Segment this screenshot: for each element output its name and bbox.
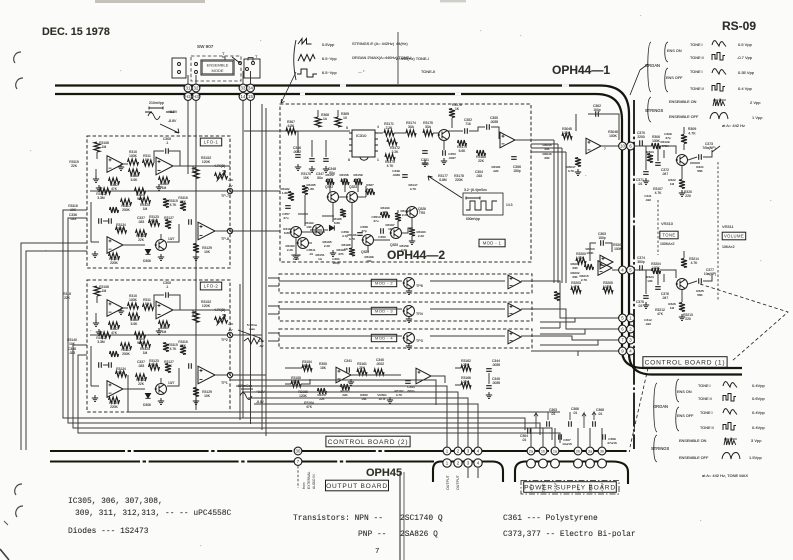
svg-text:220K: 220K	[110, 405, 119, 409]
legend wave square	[297, 69, 317, 77]
wire (LFO-1)	[169, 151, 180, 166]
svg-text:200K: 200K	[122, 352, 131, 356]
wire to test point (LFO-2)	[90, 334, 228, 336]
bottom bus lower through output group	[441, 460, 492, 462]
connector pin 4	[627, 347, 635, 355]
svg-text:500mVpp: 500mVpp	[466, 217, 480, 221]
svg-text:0.4Vpp: 0.4Vpp	[752, 425, 765, 430]
wire (LFO-2)	[123, 388, 145, 390]
binder mark	[15, 484, 22, 495]
ground (LFO-1)	[193, 254, 199, 260]
dashed pointer	[700, 284, 788, 361]
wire	[635, 269, 653, 271]
svg-text:22K: 22K	[71, 164, 78, 168]
wire stub	[357, 183, 359, 192]
ground (LFO-1)	[156, 184, 162, 190]
svg-text:120K: 120K	[202, 160, 211, 164]
wire (LFO-2)	[96, 296, 98, 303]
svg-text:TONE II: TONE II	[690, 87, 704, 91]
svg-text:CONTROL BOARD (1): CONTROL BOARD (1)	[645, 359, 726, 366]
svg-text:+6V: +6V	[259, 339, 264, 343]
svg-text:STRINGS: STRINGS	[645, 108, 663, 113]
svg-text:1M: 1M	[145, 302, 150, 306]
capacitor C337 (LFO-1)	[109, 218, 112, 224]
svg-text:ENSEMBLE: ENSEMBLE	[207, 63, 229, 68]
svg-text:TP3: TP3	[416, 339, 423, 343]
svg-text:C360: C360	[378, 235, 386, 239]
svg-text:AUDIO IN: AUDIO IN	[312, 474, 316, 489]
svg-text:100K: 100K	[609, 134, 618, 138]
capacitor C352	[465, 128, 468, 134]
CONTROL BOARD (2) box	[326, 436, 410, 447]
resistor R3193	[409, 228, 415, 236]
svg-text:120K: 120K	[299, 394, 308, 398]
wire switch to pin 32	[195, 75, 197, 84]
svg-text:H2: H2	[185, 94, 191, 99]
resistor R3121 (LFO-1)	[109, 253, 120, 259]
wire (LFO-1)	[167, 224, 179, 242]
bus dash gaps	[300, 86, 569, 95]
wire vertical	[561, 148, 563, 283]
wire	[351, 374, 401, 376]
wire stub MOD - 2	[268, 285, 279, 287]
trimmer 4.7K(B) (LFO-1)	[215, 173, 228, 179]
resistor R3204b	[652, 268, 661, 274]
svg-text:350p: 350p	[637, 260, 645, 264]
resistor R3213	[679, 303, 685, 312]
ground	[348, 379, 354, 385]
svg-text:.022: .022	[645, 198, 651, 202]
svg-text:D306: D306	[143, 403, 151, 407]
ground	[441, 158, 447, 164]
op-amp IC302 (LFO-2)	[156, 301, 173, 319]
wire stub	[322, 215, 334, 217]
svg-text:4.7K: 4.7K	[327, 177, 334, 181]
wire power pin	[542, 428, 544, 447]
MOD - 3 label box	[371, 307, 396, 314]
resistor R3173	[385, 154, 395, 160]
svg-text:TP-7: TP-7	[221, 194, 229, 198]
test point TP-8 (LFO-1)	[227, 228, 232, 233]
wire (LFO-1)	[95, 169, 97, 176]
wire stub MOD - 4	[268, 340, 279, 342]
capacitor C375	[643, 296, 649, 299]
wire	[588, 114, 619, 140]
svg-text:OUTPUT: OUTPUT	[456, 474, 460, 490]
svg-text:1M: 1M	[670, 182, 675, 186]
resistor R369	[335, 117, 341, 127]
LFO-1 label box	[200, 138, 221, 146]
wire (LFO-1)	[123, 163, 128, 165]
svg-text:-6V: -6V	[228, 184, 233, 188]
MOD - 2 label box	[371, 279, 396, 286]
connector pin 7	[294, 458, 302, 466]
wire	[397, 221, 399, 228]
ground (LFO-1)	[92, 251, 98, 257]
svg-text:POWER SUPPLY BOARD: POWER SUPPLY BOARD	[524, 484, 616, 491]
svg-text:TONE II: TONE II	[690, 56, 704, 60]
legend pointer diagonal	[630, 64, 648, 95]
wire MOD-2 out	[521, 281, 619, 318]
svg-text:.1: .1	[166, 285, 169, 289]
resistor R3180	[477, 150, 486, 156]
svg-text:+8.8V: +8.8V	[168, 110, 178, 114]
svg-text:A=440(Hz) TONE-I: A=440(Hz) TONE-I	[396, 56, 429, 61]
svg-text:from: from	[302, 482, 306, 489]
svg-text:100p: 100p	[593, 108, 601, 112]
op-amp IC304 (LFO-1)	[107, 237, 123, 254]
svg-text:1M: 1M	[670, 306, 675, 310]
svg-text:OUTPUT BOARD: OUTPUT BOARD	[326, 483, 388, 490]
capacitor C366	[569, 421, 572, 427]
wire vertical	[553, 140, 555, 283]
svg-text:33: 33	[241, 86, 246, 91]
legend2 brace ens off	[676, 407, 679, 431]
wire	[635, 145, 653, 147]
svg-text:DEC. 15 1978: DEC. 15 1978	[42, 26, 110, 38]
svg-text:3.3M: 3.3M	[97, 340, 105, 344]
wire	[681, 290, 683, 302]
svg-text:TR5: TR5	[419, 211, 425, 215]
wire	[431, 376, 445, 383]
resistor R3127 (LFO-1)	[165, 220, 171, 229]
wire (LFO-1)	[91, 241, 99, 243]
legend brace ens off	[665, 68, 668, 92]
OPH44-1 border outer heavy line	[55, 86, 742, 375]
switch wire T right	[248, 58, 253, 62]
svg-text:30K: 30K	[544, 147, 550, 151]
trimmer annotation 5.55ms	[238, 330, 263, 344]
wire stub	[559, 322, 561, 328]
resistor R3123 (LFO-2)	[149, 364, 160, 370]
svg-text:TP2: TP2	[221, 338, 228, 342]
svg-text:220: 220	[685, 194, 691, 198]
wire	[358, 196, 366, 198]
wire	[703, 150, 712, 157]
transistor Q318	[438, 130, 450, 141]
capacitor C344	[486, 369, 492, 372]
diode D306 (LFO-1)	[145, 249, 150, 254]
svg-text:30K: 30K	[544, 156, 550, 160]
C373 arrow	[712, 146, 720, 152]
wire stub	[310, 229, 322, 231]
corner scan mark	[0, 549, 9, 560]
wire (LFO-2)	[103, 364, 108, 366]
connector pin 1	[443, 447, 451, 455]
svg-text:100K: 100K	[129, 154, 138, 158]
svg-text:0.4Vpp: 0.4Vpp	[752, 383, 765, 388]
svg-text:.018: .018	[476, 174, 483, 178]
LFO-2 dashed box	[87, 280, 230, 412]
wire run 6	[295, 423, 540, 435]
wire run 8	[305, 433, 560, 443]
resistor R3115 (LFO-1)	[110, 207, 119, 213]
wire	[339, 196, 347, 198]
capacitor C365	[547, 421, 550, 427]
wire power pin	[589, 428, 591, 447]
svg-text:1b: 1b	[541, 449, 545, 453]
svg-text:.01: .01	[522, 438, 527, 442]
capacitor C355	[487, 124, 490, 130]
wire	[295, 238, 297, 253]
wire run out3	[248, 398, 468, 447]
svg-text:4.7K: 4.7K	[655, 191, 663, 195]
capacitor C340 (LFO-1)	[189, 219, 192, 225]
resistor R305 (LFO-2)	[159, 321, 170, 327]
transistor Q324	[362, 235, 374, 246]
bottom bus heavy line upper	[50, 450, 630, 452]
ground (LFO-1)	[158, 254, 164, 260]
capacitor C347	[309, 159, 315, 162]
wire	[688, 281, 697, 284]
svg-text:13/7: 13/7	[168, 381, 175, 385]
svg-text:200K: 200K	[117, 227, 126, 231]
connector pin 5	[619, 314, 627, 322]
trimmer 4.7K(B) (LFO-2)	[215, 317, 228, 323]
legend brace organ top	[648, 42, 651, 92]
connector pin	[574, 459, 583, 468]
svg-text:VR310: VR310	[661, 221, 674, 226]
resistor R310 (LFO-1)	[128, 159, 139, 165]
resistor R308 (LFO-1)	[129, 169, 140, 175]
svg-text:TP6: TP6	[416, 284, 423, 288]
svg-text:.1: .1	[166, 141, 169, 145]
ground MOD - 3	[406, 316, 412, 322]
op-amp IC307	[416, 368, 431, 384]
binder mark	[16, 78, 23, 89]
svg-text:4.7K: 4.7K	[349, 237, 356, 241]
wire (LFO-1)	[123, 244, 145, 246]
ground	[409, 238, 415, 244]
svg-text:100K: 100K	[652, 266, 661, 270]
wire	[531, 139, 554, 141]
svg-text:.0039: .0039	[490, 120, 498, 124]
wire	[332, 203, 334, 222]
svg-text:IC305, 306, 307,308,: IC305, 306, 307,308,	[68, 497, 163, 506]
wire	[301, 379, 310, 384]
ensemble mode switch box	[201, 60, 234, 75]
ground (LFO-2)	[93, 320, 99, 326]
capacitor C358	[357, 233, 363, 236]
MOD-1 label box	[479, 239, 505, 247]
wire	[297, 131, 299, 153]
svg-text:2.7K: 2.7K	[581, 278, 588, 282]
connector pin 2a	[527, 447, 535, 455]
svg-text:-8.8V: -8.8V	[256, 400, 265, 404]
svg-text:6.8K: 6.8K	[334, 221, 341, 225]
svg-text:15: 15	[248, 94, 253, 99]
capacitor C357	[285, 206, 291, 209]
wire (LFO-1)	[103, 220, 108, 222]
svg-text:15K: 15K	[303, 176, 310, 180]
wire stub MOD - 3	[268, 305, 279, 307]
connector pin 32	[192, 84, 200, 92]
wire	[531, 147, 562, 149]
binder mark	[14, 52, 21, 63]
svg-text:1M: 1M	[162, 330, 167, 334]
resistor R3047	[575, 158, 581, 167]
capacitor C336 (LFO-2)	[99, 362, 102, 368]
resistor R3203	[571, 287, 581, 293]
svg-text:TONE I: TONE I	[700, 411, 713, 415]
capacitor C356	[511, 157, 517, 160]
legend wave organ tone2 ens-on	[712, 53, 725, 61]
svg-text:150p: 150p	[598, 236, 606, 240]
svg-text:MODE: MODE	[212, 68, 224, 73]
svg-text:3 Vpp: 3 Vpp	[751, 438, 762, 443]
svg-text:2.2K: 2.2K	[401, 248, 408, 252]
resistor R3119 (LFO-1)	[163, 199, 169, 208]
resistor R3119 (LFO-2)	[163, 343, 169, 352]
op-amp IC303 (LFO-2)	[198, 366, 215, 384]
legend2 brace strings	[654, 435, 657, 462]
svg-text:4.7K: 4.7K	[170, 347, 178, 351]
VR310 dashed link	[657, 200, 659, 255]
capacitor C377	[699, 278, 702, 284]
wire stub	[344, 183, 346, 192]
svg-text:0.5Vpp: 0.5Vpp	[322, 42, 334, 47]
wire	[657, 270, 659, 285]
wire LFO2 out	[233, 374, 266, 376]
svg-text:.0039: .0039	[492, 363, 500, 367]
vertical line bottom	[399, 472, 401, 560]
svg-text:5: 5	[346, 126, 348, 130]
binder mark	[16, 506, 23, 517]
legend brace strings top	[648, 97, 651, 122]
svg-text:36: 36	[296, 449, 301, 454]
resistor R3124 (LFO-2)	[116, 371, 127, 377]
resistor R3190	[381, 212, 390, 218]
svg-text:22K: 22K	[342, 393, 348, 397]
legend wave organ	[298, 55, 315, 62]
op-amp output MOD - 4	[508, 330, 521, 344]
svg-text:ENS OFF: ENS OFF	[666, 76, 683, 80]
wire output (LFO-2)	[173, 309, 230, 311]
wire (LFO-1)	[96, 152, 98, 159]
wire	[411, 236, 413, 238]
capacitor C305 (LFO-2)	[166, 292, 169, 298]
svg-text:IC310: IC310	[356, 133, 367, 138]
svg-text:LFO-2: LFO-2	[204, 284, 219, 289]
capacitor C364	[528, 428, 531, 434]
svg-text:-0.7 Vpp: -0.7 Vpp	[737, 55, 753, 60]
wire	[681, 166, 683, 179]
capacitor C340 (LFO-2)	[189, 363, 192, 369]
connector pin	[586, 459, 595, 468]
svg-text:4.7K(B): 4.7K(B)	[214, 308, 225, 312]
transistor TR5	[406, 207, 418, 218]
connector pin 4	[619, 266, 627, 274]
resistor R302 (LFO-2)	[109, 322, 120, 328]
svg-text:47K: 47K	[111, 331, 118, 335]
resistor R3163	[318, 388, 327, 394]
svg-text:.01: .01	[309, 252, 314, 256]
wire to test point (LFO-1)	[90, 190, 228, 192]
legend2 brace organ	[654, 383, 657, 432]
wire (LFO-2)	[215, 374, 228, 376]
connector pin	[539, 459, 548, 468]
bottom bus curve left of PS group	[515, 462, 526, 483]
svg-text:.033: .033	[69, 351, 76, 355]
svg-text:Transistors: NPN --: Transistors: NPN --	[293, 514, 383, 523]
resistor R320	[679, 180, 685, 189]
wire	[309, 242, 312, 244]
switch contact	[246, 68, 249, 71]
svg-text:7: 7	[604, 147, 606, 151]
capacitor C351	[422, 151, 428, 154]
legend wave organ tone1 ens-on	[712, 41, 726, 47]
wire (LFO-2)	[160, 378, 162, 383]
connector pin 1b	[539, 447, 547, 455]
svg-text:H3: H3	[193, 94, 199, 99]
wire switch to pin 34	[250, 71, 252, 84]
svg-text:Diodes --- 1S2473: Diodes --- 1S2473	[68, 527, 149, 536]
svg-text:7/5a(NP): 7/5a(NP)	[702, 146, 715, 150]
svg-text:Q322: Q322	[325, 185, 333, 189]
svg-text:1M: 1M	[102, 289, 107, 293]
capacitor C346	[295, 155, 301, 158]
capacitor C345	[486, 386, 492, 389]
wire mid vertical 4	[265, 108, 267, 436]
legend brace ens on	[665, 42, 668, 62]
switch contact	[195, 71, 198, 74]
resistor R3183	[288, 192, 294, 201]
wire (LFO-2)	[169, 295, 180, 310]
svg-text:100K: 100K	[652, 139, 661, 143]
capacitor C343	[405, 381, 411, 384]
POWER SUPPLY BOARD box	[524, 482, 617, 493]
svg-text:.022: .022	[645, 322, 651, 326]
svg-text:100K: 100K	[614, 247, 623, 251]
resistor R3157	[326, 179, 334, 185]
resistor R3124 (LFO-1)	[116, 227, 127, 233]
svg-text:6.8K: 6.8K	[284, 231, 291, 235]
svg-text:-6V: -6V	[259, 344, 264, 348]
svg-text:+6V: +6V	[228, 322, 233, 326]
legend2 wave	[723, 423, 736, 431]
wire	[477, 468, 479, 478]
connector pin 1a	[551, 447, 559, 455]
svg-text:47u/16: 47u/16	[607, 441, 617, 445]
resistor R3129 (LFO-1)	[193, 244, 199, 253]
svg-text:47p: 47p	[361, 229, 366, 233]
op-amp IC301 (LFO-2)	[107, 300, 123, 317]
svg-text:5.6K: 5.6K	[459, 149, 467, 153]
ground (LFO-1)	[93, 176, 99, 182]
svg-text:4: 4	[377, 125, 379, 129]
ground	[422, 160, 428, 166]
wire	[394, 132, 406, 134]
svg-text:4.7K: 4.7K	[387, 164, 395, 168]
svg-text:18K: 18K	[320, 366, 327, 370]
ensemble switch dashed outline	[191, 56, 241, 81]
svg-text:1: 1	[377, 158, 379, 162]
wire	[531, 350, 619, 352]
svg-text:CONTROL BOARD (2): CONTROL BOARD (2)	[328, 439, 409, 446]
legend wave strings	[298, 39, 312, 45]
bottom bus curve right of output group	[492, 462, 503, 483]
capacitor C374	[640, 265, 643, 271]
svg-text:0.6Vpp: 0.6Vpp	[752, 396, 765, 401]
svg-text:1M: 1M	[102, 145, 107, 149]
wire LFO left 1	[63, 210, 290, 418]
svg-text:33A: 33A	[425, 125, 432, 129]
resistor R308 (LFO-2)	[129, 313, 140, 319]
resistor R3127 (LFO-2)	[165, 364, 171, 373]
connector pin 4	[474, 447, 482, 455]
transistor Q317 (LFO-2)	[155, 384, 167, 395]
connector pin 3	[627, 336, 635, 344]
